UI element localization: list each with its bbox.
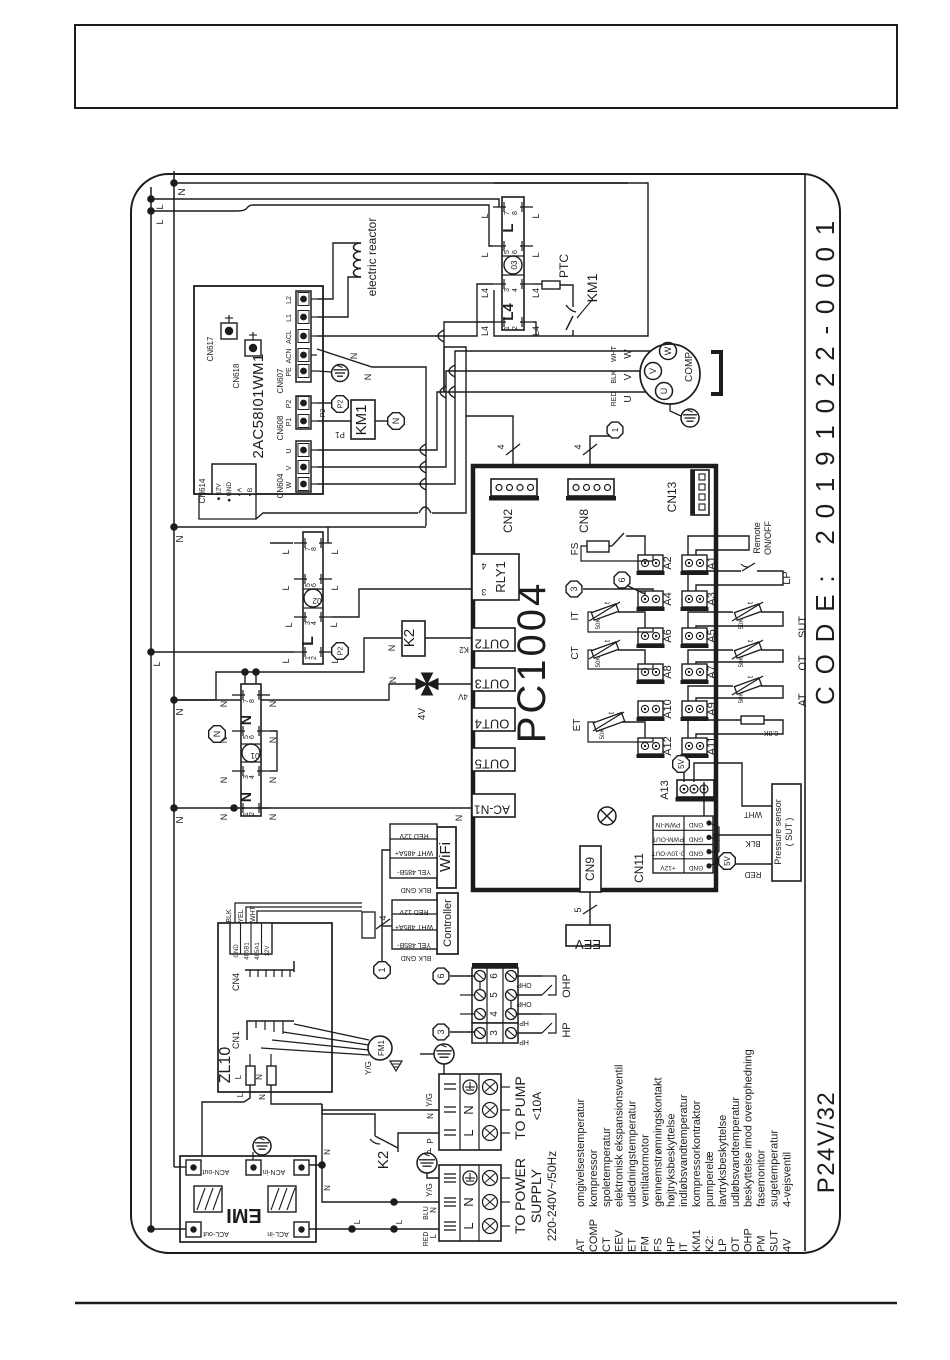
wire ACN chain xyxy=(318,1161,326,1169)
output OUT3 xyxy=(472,668,515,691)
svg-text:6: 6 xyxy=(436,973,446,978)
svg-text:ET: ET xyxy=(627,1238,639,1252)
svg-text:5: 5 xyxy=(573,907,583,912)
svg-text:4V: 4V xyxy=(781,1238,793,1252)
svg-text:HP: HP xyxy=(519,1019,529,1026)
svg-text:RED 12V: RED 12V xyxy=(399,832,429,839)
svg-text:beskyttelse imod overophedning: beskyttelse imod overophedning xyxy=(743,1049,755,1207)
svg-text:OUT3: OUT3 xyxy=(475,677,510,692)
svg-text:P2: P2 xyxy=(338,400,345,409)
wire relay pin8 up xyxy=(327,527,329,543)
wire loop KM1 block xyxy=(494,183,648,336)
svg-text:P2: P2 xyxy=(338,647,345,656)
svg-text:AT: AT xyxy=(575,1238,587,1252)
svg-text:RED 12V: RED 12V xyxy=(399,908,429,915)
connector CN13 xyxy=(691,470,709,515)
L rail vertical xyxy=(150,187,152,1229)
resistor PTC xyxy=(533,283,542,285)
svg-text:L: L xyxy=(395,1219,404,1224)
svg-text:P1: P1 xyxy=(286,418,293,427)
svg-text:FM: FM xyxy=(640,1236,652,1252)
svg-text:▪ A: ▪ A xyxy=(237,487,244,496)
svg-text:ACN: ACN xyxy=(286,349,293,364)
svg-text:N: N xyxy=(268,814,278,821)
svg-text:2: 2 xyxy=(249,812,256,816)
svg-text:PC1004: PC1004 xyxy=(510,581,554,744)
OHP wires xyxy=(517,975,542,977)
svg-text:BLK: BLK xyxy=(611,370,618,384)
svg-text:IT: IT xyxy=(570,612,581,621)
wire PTC to KM1 contact xyxy=(560,285,573,300)
wire A13 pin3 BLK xyxy=(703,782,705,806)
EMI earth xyxy=(252,1152,254,1160)
terminal A7 xyxy=(682,664,707,680)
svg-text:EEV: EEV xyxy=(614,1229,626,1252)
svg-text:N: N xyxy=(363,374,373,381)
svg-text:RED: RED xyxy=(744,870,761,879)
svg-text:12V: 12V xyxy=(265,946,271,957)
svg-text:indløbsvandtemperatur: indløbsvandtemperatur xyxy=(678,1094,690,1207)
svg-text:L4: L4 xyxy=(531,288,541,298)
svg-text:PWM-IN: PWM-IN xyxy=(655,821,680,828)
svg-text:gennemstrømningskontakt: gennemstrømningskontakt xyxy=(652,1077,664,1207)
svg-text:4: 4 xyxy=(512,288,519,292)
svg-text:EEV: EEV xyxy=(575,937,601,952)
svg-text:A13: A13 xyxy=(659,780,671,800)
svg-text:4: 4 xyxy=(249,775,256,779)
svg-text:L: L xyxy=(353,1219,362,1224)
svg-text:V: V xyxy=(623,373,634,380)
svg-text:N: N xyxy=(219,777,229,784)
svg-text:FS: FS xyxy=(652,1238,664,1252)
svg-text:2: 2 xyxy=(512,326,519,330)
connector CN607 xyxy=(296,291,311,382)
thermistor CT xyxy=(591,642,618,658)
ZL10 box xyxy=(218,923,332,1092)
wire node1 to CN8 xyxy=(590,436,610,479)
switch FS xyxy=(587,541,609,552)
svg-text:N: N xyxy=(175,535,186,542)
svg-text:CN604: CN604 xyxy=(276,473,285,498)
svg-text:A11: A11 xyxy=(706,737,718,756)
svg-text:N: N xyxy=(429,1207,438,1213)
wire L rail to ACL-out xyxy=(151,1228,186,1230)
svg-text:FM1: FM1 xyxy=(377,1039,386,1056)
svg-text:8: 8 xyxy=(512,211,519,215)
octagon 6 net xyxy=(433,968,449,984)
title strip inner line xyxy=(804,175,806,1251)
label KM1 contact xyxy=(577,300,592,318)
svg-text:A3: A3 xyxy=(706,592,718,605)
svg-text:N: N xyxy=(212,731,222,738)
output OUT2 xyxy=(472,628,515,651)
svg-text:YEL 485B-: YEL 485B- xyxy=(397,941,431,948)
svg-text:GND: GND xyxy=(688,821,703,828)
wire N top xyxy=(174,182,628,184)
terminal A1 xyxy=(682,555,707,571)
wire WiFi WHT to node 1 xyxy=(382,850,390,962)
svg-text:Pressure sensor: Pressure sensor xyxy=(773,799,783,865)
relay L circle 02 xyxy=(304,589,322,607)
svg-text:ACL-in: ACL-in xyxy=(267,1230,289,1237)
relay L4 circle 03 xyxy=(504,256,522,274)
svg-text:N: N xyxy=(238,715,254,725)
svg-text:TO PUMP: TO PUMP xyxy=(512,1076,528,1140)
svg-text:3: 3 xyxy=(504,288,511,292)
svg-text:CN13: CN13 xyxy=(665,481,679,512)
svg-text:TO POWER: TO POWER xyxy=(512,1158,528,1234)
svg-text:A7: A7 xyxy=(706,665,718,678)
svg-text:pumperelæ: pumperelæ xyxy=(704,1151,716,1207)
svg-text:OT: OT xyxy=(730,1236,742,1252)
svg-text:▪ B: ▪ B xyxy=(247,488,254,496)
svg-text:fasemonitor: fasemonitor xyxy=(756,1149,768,1207)
octagon 3 net xyxy=(433,1024,449,1040)
svg-text:W: W xyxy=(663,346,673,355)
L rail top lines xyxy=(147,195,155,203)
svg-text:PWM-OUT: PWM-OUT xyxy=(652,835,684,842)
output OUT4 xyxy=(472,708,515,731)
thermistor OT xyxy=(688,650,733,664)
svg-text:4: 4 xyxy=(481,561,486,571)
EMI core 2 xyxy=(268,1186,296,1212)
svg-text:YEL 485B-: YEL 485B- xyxy=(397,868,431,875)
svg-text:RLY1: RLY1 xyxy=(493,561,508,593)
power earth xyxy=(417,1153,437,1173)
svg-text:ON/OFF: ON/OFF xyxy=(763,521,773,555)
svg-text:HP: HP xyxy=(519,1038,529,1045)
svg-text:P2: P2 xyxy=(286,400,293,409)
wire +12V to 5V to RED xyxy=(709,862,718,866)
svg-text:N: N xyxy=(255,1074,264,1080)
wire L4pin1 riser join xyxy=(443,347,445,392)
connector CN2 xyxy=(491,479,537,496)
COMP terminal bracket xyxy=(711,352,721,394)
terminal A2 xyxy=(638,555,663,571)
thermistor SUT xyxy=(688,612,733,628)
switch LP xyxy=(688,571,741,591)
connector CN11 table xyxy=(653,816,713,873)
terminal strip 3456 xyxy=(472,968,518,1023)
svg-text:L4: L4 xyxy=(480,326,490,336)
svg-text:ACL-out: ACL-out xyxy=(203,1230,229,1237)
node 1 octagon xyxy=(607,422,623,438)
svg-text:CT: CT xyxy=(601,1237,613,1252)
wire ACL-in to power L xyxy=(309,1228,439,1230)
svg-text:kompressor: kompressor xyxy=(588,1149,600,1207)
svg-text:WHT: WHT xyxy=(744,810,762,819)
wires GND bus xyxy=(709,823,719,852)
fan motor FM1 xyxy=(368,1036,392,1060)
svg-text:2: 2 xyxy=(311,656,318,660)
svg-text:N: N xyxy=(388,677,398,684)
svg-text:W: W xyxy=(286,481,293,488)
svg-text:AT: AT xyxy=(797,693,809,707)
svg-text:GND: GND xyxy=(688,850,703,857)
HP wires xyxy=(517,1013,542,1015)
svg-text:ZL10: ZL10 xyxy=(217,1047,234,1084)
relay N strip xyxy=(241,684,261,816)
svg-text:CN1: CN1 xyxy=(231,1031,241,1049)
svg-text:L: L xyxy=(236,1092,245,1097)
svg-text:1: 1 xyxy=(504,326,511,330)
svg-text:5: 5 xyxy=(504,250,511,254)
wire L1 top xyxy=(151,199,499,207)
svg-text:L: L xyxy=(330,549,340,554)
wire N pin8 xyxy=(255,672,257,684)
svg-text:A2: A2 xyxy=(662,556,674,569)
wire ACN diagonal xyxy=(317,349,426,526)
module 2AC58I01WM1 xyxy=(194,286,323,494)
svg-text:3: 3 xyxy=(569,586,579,591)
svg-text:5: 5 xyxy=(489,992,500,998)
svg-text:SUT: SUT xyxy=(797,616,809,638)
svg-text:50K: 50K xyxy=(600,729,606,740)
ZL10 terminal table xyxy=(230,923,272,954)
svg-text:N: N xyxy=(426,1113,435,1119)
svg-text:ACN-in: ACN-in xyxy=(263,1168,286,1175)
svg-text:4: 4 xyxy=(311,621,318,625)
output OUT5 xyxy=(472,748,515,771)
valve 4V xyxy=(422,673,433,684)
wire N rail to ACN-out xyxy=(174,1166,186,1168)
svg-text:elektronisk ekspansionsventil: elektronisk ekspansionsventil xyxy=(614,1065,626,1207)
octagon P2 relay xyxy=(332,643,349,660)
connector CN618 xyxy=(245,340,261,356)
octagon 5V A13 xyxy=(673,756,690,773)
svg-text:L: L xyxy=(531,252,541,257)
svg-text:udledningstemperatur: udledningstemperatur xyxy=(627,1100,639,1207)
svg-text:4-vejsventil: 4-vejsventil xyxy=(781,1152,793,1207)
EMI terminal ACL-out xyxy=(186,1222,201,1237)
thermistor ET xyxy=(593,713,624,732)
svg-text:KM1: KM1 xyxy=(691,1229,703,1252)
svg-text:N: N xyxy=(349,353,359,360)
svg-text:P24V/32: P24V/32 xyxy=(813,1091,840,1194)
svg-text:L: L xyxy=(480,213,490,218)
EMI terminal ACN-in xyxy=(246,1160,261,1175)
motor COMP xyxy=(640,344,700,404)
Controller connector xyxy=(437,893,458,954)
svg-text:ACN-out: ACN-out xyxy=(203,1168,230,1175)
WiFi cell table xyxy=(390,824,437,878)
svg-text:<10A: <10A xyxy=(530,1092,544,1120)
EMI terminal ACL-in xyxy=(294,1222,309,1237)
svg-text:485B1: 485B1 xyxy=(245,942,251,960)
svg-text:FS: FS xyxy=(570,542,581,555)
terminal A3 xyxy=(682,591,707,607)
svg-text:6: 6 xyxy=(489,973,500,979)
svg-text:6: 6 xyxy=(311,583,318,587)
svg-text:A6: A6 xyxy=(662,629,674,642)
svg-text:6: 6 xyxy=(512,250,519,254)
svg-text:L: L xyxy=(300,636,317,646)
svg-text:L: L xyxy=(329,622,339,627)
svg-text:U: U xyxy=(286,448,293,453)
svg-text:2AC58I01WM1: 2AC58I01WM1 xyxy=(250,353,267,458)
svg-text:N: N xyxy=(391,418,401,425)
wire CN614 bundle xyxy=(174,526,426,528)
svg-text:50K: 50K xyxy=(596,619,602,630)
wire L4 pin3 to ACL xyxy=(317,284,493,336)
node N top xyxy=(170,179,178,187)
relay L strip xyxy=(303,532,323,664)
svg-text:HP: HP xyxy=(665,1237,677,1252)
svg-text:Remote: Remote xyxy=(752,522,762,554)
LED crossed circle xyxy=(598,807,616,825)
svg-text:CN4: CN4 xyxy=(231,973,241,991)
svg-text:Y/G: Y/G xyxy=(425,1093,434,1107)
octagon 5V CN11 xyxy=(719,853,736,870)
svg-text:L: L xyxy=(281,658,291,663)
terminal A13 xyxy=(677,780,714,797)
terminal A8 xyxy=(638,664,663,680)
svg-text:3: 3 xyxy=(481,587,486,597)
ZL10 N fuse xyxy=(267,1066,276,1085)
wire reactor to L1 xyxy=(317,277,361,317)
relay K2 box xyxy=(402,621,425,656)
svg-text:YEL: YEL xyxy=(238,909,245,922)
wire ZL10 L out xyxy=(249,1054,251,1066)
svg-text:PE: PE xyxy=(286,367,293,377)
svg-text:01: 01 xyxy=(250,751,259,760)
svg-text:N: N xyxy=(323,1149,332,1155)
svg-text:N: N xyxy=(387,645,397,652)
thermistor IT xyxy=(591,604,618,620)
svg-text:L: L xyxy=(461,1129,476,1136)
svg-text:LP: LP xyxy=(781,571,793,584)
svg-text:OHP: OHP xyxy=(516,1000,532,1007)
svg-text:CN608: CN608 xyxy=(276,415,285,440)
svg-text:kompressorkontraktor: kompressorkontraktor xyxy=(691,1100,703,1207)
svg-text:CN618: CN618 xyxy=(232,363,241,388)
svg-text:BLK: BLK xyxy=(745,839,761,848)
svg-text:4: 4 xyxy=(496,444,506,449)
wire CN2 riser xyxy=(466,416,513,479)
wire relay pin4 to RLY1 pin3 xyxy=(332,589,473,617)
svg-text:N: N xyxy=(219,814,229,821)
svg-text:50K: 50K xyxy=(596,657,602,668)
svg-text:CN11: CN11 xyxy=(632,853,646,883)
svg-text:WHT: WHT xyxy=(611,345,618,362)
wire U to COMP xyxy=(317,392,655,450)
terminal A9 xyxy=(682,701,707,717)
svg-text:omgivelsestemperatur: omgivelsestemperatur xyxy=(575,1098,587,1207)
svg-text:CN8: CN8 xyxy=(577,509,591,533)
svg-text:L: L xyxy=(531,213,541,218)
WiFi connector xyxy=(437,827,456,888)
svg-text:3: 3 xyxy=(436,1029,446,1034)
svg-text:K2: K2 xyxy=(401,629,418,647)
electric reactor coil xyxy=(354,243,362,277)
svg-text:KM1: KM1 xyxy=(353,405,370,436)
svg-text:udløbsvandtemperatur: udløbsvandtemperatur xyxy=(730,1097,742,1207)
svg-text:L4: L4 xyxy=(480,288,490,298)
svg-text:50K: 50K xyxy=(739,619,745,630)
svg-text:7: 7 xyxy=(504,211,511,215)
N rail vertical xyxy=(173,171,175,1167)
connector CN617 xyxy=(221,323,237,339)
connector CN604 xyxy=(296,441,311,492)
svg-text:sugetemperatur: sugetemperatur xyxy=(769,1130,781,1207)
svg-text:ventilatormotor: ventilatormotor xyxy=(640,1134,652,1207)
remote ON/OFF loop xyxy=(688,536,749,555)
svg-text:6: 6 xyxy=(617,577,627,582)
thermistor AT xyxy=(688,686,733,701)
svg-text:L: L xyxy=(234,1074,243,1079)
wire K2 N xyxy=(174,638,402,700)
svg-text:L: L xyxy=(155,204,165,209)
svg-text:BLK GND: BLK GND xyxy=(401,954,432,961)
svg-text:electric reactor: electric reactor xyxy=(365,218,379,297)
svg-text:A5: A5 xyxy=(706,629,718,642)
svg-text:L2: L2 xyxy=(286,296,293,304)
wire L4 pin2 to loop xyxy=(533,322,536,336)
svg-text:N: N xyxy=(268,777,278,784)
svg-text:WHT 485A+: WHT 485A+ xyxy=(395,849,433,856)
EMI core 1 xyxy=(194,1186,222,1212)
svg-text:N: N xyxy=(175,816,186,823)
svg-text:N: N xyxy=(175,708,186,715)
input AC-N1 xyxy=(472,794,515,817)
svg-text:Y/G: Y/G xyxy=(425,1183,434,1197)
svg-text:OT: OT xyxy=(797,655,809,671)
wire 4V N xyxy=(174,684,416,700)
connector CN608 xyxy=(296,396,311,429)
svg-text:WiFi: WiFi xyxy=(437,842,454,872)
wire 4V to OUT3 xyxy=(438,683,472,685)
wire relay pin7 stub xyxy=(270,542,293,544)
wire A13 pin2 WHT xyxy=(694,763,772,806)
svg-text:W: W xyxy=(623,349,634,359)
svg-text:SUT: SUT xyxy=(769,1230,781,1252)
svg-text:N: N xyxy=(268,701,278,708)
wire L2 top xyxy=(151,210,237,212)
svg-text:CN2: CN2 xyxy=(501,509,515,533)
svg-text:485A1: 485A1 xyxy=(255,942,261,960)
bottom rule line xyxy=(75,1302,897,1304)
node 1 octagon bottom xyxy=(374,962,391,979)
svg-text:02: 02 xyxy=(312,596,321,605)
svg-text:0-10V-OUT: 0-10V-OUT xyxy=(652,850,685,857)
svg-text:4: 4 xyxy=(573,444,583,449)
svg-text:L4: L4 xyxy=(500,303,517,321)
svg-text:N: N xyxy=(177,188,188,195)
drawing sheet border xyxy=(131,174,840,1253)
board PC1004 xyxy=(473,466,716,890)
svg-text:3: 3 xyxy=(489,1030,500,1036)
svg-text:OHP: OHP xyxy=(743,1228,755,1252)
svg-text:L: L xyxy=(284,622,294,627)
wire L rail branch pin1 xyxy=(151,651,294,653)
svg-text:WHT 485A+: WHT 485A+ xyxy=(395,923,433,930)
svg-text:spoletemperatur: spoletemperatur xyxy=(601,1127,613,1207)
page header box xyxy=(75,25,897,108)
svg-text:GND: GND xyxy=(234,944,240,958)
svg-text:4V: 4V xyxy=(457,692,467,701)
svg-text:U: U xyxy=(659,388,669,395)
svg-text:5V: 5V xyxy=(677,758,686,768)
COMP earth xyxy=(670,404,681,416)
svg-text:K2:: K2: xyxy=(704,1235,716,1252)
octagon N KM1 xyxy=(375,420,387,422)
svg-text:N: N xyxy=(461,1105,476,1114)
svg-text:A4: A4 xyxy=(662,592,674,605)
svg-text:RED: RED xyxy=(611,392,618,407)
svg-text:N: N xyxy=(219,701,229,708)
relay L4 strip xyxy=(502,197,524,330)
svg-text:6.8K: 6.8K xyxy=(763,729,778,736)
